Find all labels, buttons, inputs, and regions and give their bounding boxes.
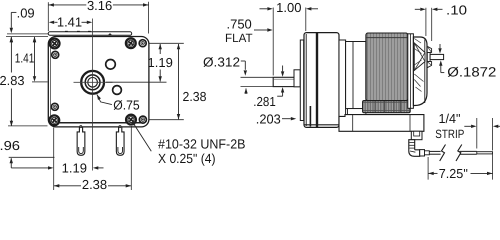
hub horizontal centerline xyxy=(74,81,113,83)
dim diameter .1872 xyxy=(438,48,441,53)
mounting plate bar on top of gearbox xyxy=(48,32,132,36)
small hole upper right of hub xyxy=(106,60,116,70)
dim .281 xyxy=(281,71,284,76)
gearbox cover plate side xyxy=(300,40,303,121)
dim 1.41 top xyxy=(54,21,57,23)
end bell bottom bump xyxy=(427,62,431,68)
extension line terminal bottoms xyxy=(9,156,55,158)
svg-text:FLAT: FLAT xyxy=(225,31,253,45)
dim 1.41 left vertical xyxy=(34,37,36,76)
end bell top bump xyxy=(427,46,431,52)
gearbox rear plate side xyxy=(339,40,346,122)
svg-text:Ø.1872: Ø.1872 xyxy=(447,65,496,80)
shaft diameter extension lines xyxy=(241,76,274,78)
gearbox front view body xyxy=(48,37,149,127)
corner screw top-left xyxy=(50,39,60,49)
svg-text:1.00: 1.00 xyxy=(276,0,301,15)
svg-text:#10-32 UNF-2B: #10-32 UNF-2B xyxy=(158,137,246,152)
rear shaft stub xyxy=(427,53,430,62)
svg-text:Ø.75: Ø.75 xyxy=(113,98,140,113)
stack end plate right xyxy=(408,34,414,109)
terminal blade left xyxy=(77,127,85,155)
svg-text:.09: .09 xyxy=(17,5,35,20)
wire break symbol 1 xyxy=(440,145,446,162)
svg-text:X 0.25" (4): X 0.25" (4) xyxy=(158,151,216,166)
svg-text:.203: .203 xyxy=(256,111,281,126)
motor end bell xyxy=(413,37,427,106)
output shaft side view xyxy=(273,77,300,86)
motor base xyxy=(339,115,424,132)
dim 1.19 bottom xyxy=(11,167,48,169)
small hole below top-left screw xyxy=(52,51,59,58)
dim 2.38 right xyxy=(150,119,184,121)
weld nubs on mounting plate xyxy=(65,30,68,32)
svg-text:.96: .96 xyxy=(0,138,20,153)
cord ferrule xyxy=(420,150,425,156)
motor front bracket side xyxy=(346,42,366,109)
svg-text:STRIP: STRIP xyxy=(435,127,464,141)
svg-text:Ø.312: Ø.312 xyxy=(203,54,240,69)
svg-text:.750: .750 xyxy=(226,17,251,32)
dim .10 top right xyxy=(425,8,427,36)
svg-text:1.41: 1.41 xyxy=(15,51,35,66)
corner screw bottom-left xyxy=(49,115,59,125)
cord elbow xyxy=(409,140,420,157)
screw thread callout #10-32 xyxy=(132,122,136,126)
svg-text:1.41: 1.41 xyxy=(57,15,82,30)
svg-text:2.83: 2.83 xyxy=(0,73,25,88)
corner screw top-right xyxy=(126,38,136,48)
stripped wire end xyxy=(477,152,493,154)
small hole lower right of hub (.75 ref) xyxy=(113,86,122,95)
gearbox body side view xyxy=(304,33,339,128)
output shaft bore circle xyxy=(88,78,98,88)
shaft tip extension line vertical xyxy=(272,8,274,76)
svg-text:2.38: 2.38 xyxy=(82,177,107,192)
dim 1.19 right xyxy=(149,42,184,44)
dim 3.16 top xyxy=(47,2,49,31)
svg-text:.10: .10 xyxy=(446,2,467,17)
extension line box bottom left xyxy=(8,125,48,127)
dim 2.83 left xyxy=(10,37,12,72)
lamination stack hatched xyxy=(366,33,408,101)
svg-text:3.16: 3.16 xyxy=(87,0,112,13)
wire break symbol 2 xyxy=(456,145,462,162)
small hole above bottom-left screw xyxy=(51,103,58,110)
wire segment 2 xyxy=(460,150,477,152)
svg-text:1/4": 1/4" xyxy=(439,111,461,126)
svg-text:.281: .281 xyxy=(253,94,275,109)
end bell bearing brace xyxy=(414,43,425,71)
gearbox output boss side xyxy=(294,70,300,87)
extension line bottom left screws xyxy=(53,128,55,191)
small hole right of bottom-right screw xyxy=(139,116,146,123)
svg-text:2.38: 2.38 xyxy=(183,89,207,104)
output hub middle circle xyxy=(85,75,100,90)
strain relief bushing xyxy=(411,131,422,139)
output hub outer boss circle xyxy=(81,71,104,94)
gearbox front inner bottom edge line xyxy=(52,122,145,124)
wire segment 1 xyxy=(429,150,440,152)
dim 2.38 bottom xyxy=(54,185,81,187)
vertical centerline through hub xyxy=(92,19,94,171)
svg-text:1.19: 1.19 xyxy=(148,55,173,70)
svg-text:7.25": 7.25" xyxy=(439,166,468,181)
corner screw bottom-right xyxy=(126,115,136,125)
hub centerline extension left xyxy=(32,81,48,83)
svg-text:1.19: 1.19 xyxy=(62,161,87,176)
terminal blade right xyxy=(116,127,124,155)
dim 7.25 bottom xyxy=(427,157,429,180)
gearbox front inner left edge line xyxy=(50,45,52,118)
leader and label diameter .75 xyxy=(97,94,101,100)
small hole right of top-right screw xyxy=(139,40,146,47)
extension line bottom right screws xyxy=(130,126,132,190)
coil winding band hatched xyxy=(363,101,411,113)
